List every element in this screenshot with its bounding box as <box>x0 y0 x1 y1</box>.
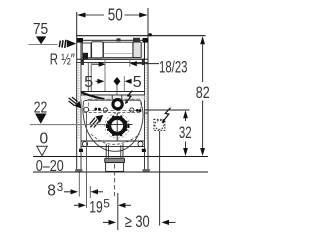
box top tick <box>117 38 121 41</box>
svg-text:5: 5 <box>84 74 93 91</box>
svg-text:82: 82 <box>196 83 210 102</box>
drain centreline dashed <box>114 164 116 196</box>
svg-text:19: 19 <box>89 199 103 217</box>
pan shelf dashed line <box>84 111 141 113</box>
electrical conduit line <box>159 131 161 226</box>
wire: finished floor line <box>33 156 208 158</box>
supply arrow icon <box>59 40 76 48</box>
WC pan outline <box>83 100 143 151</box>
extension line x131.7 <box>129 60 131 68</box>
drain coupling <box>105 158 125 162</box>
svg-text:75: 75 <box>33 21 48 38</box>
svg-text:5: 5 <box>133 74 142 91</box>
extension line x105 <box>104 60 106 93</box>
leg pin left <box>79 149 83 152</box>
flush pipe connection donut <box>111 98 123 110</box>
cistern bottom shelf lines <box>81 91 145 93</box>
service window <box>104 42 133 57</box>
bolt hole left <box>84 107 89 112</box>
svg-text:0: 0 <box>40 130 49 147</box>
fill valve box <box>92 42 103 58</box>
svg-text:0–20: 0–20 <box>36 158 64 175</box>
wire: top wall line <box>76 35 205 37</box>
dim 5 arrows and centre diamond <box>96 77 132 99</box>
flush pipe stubs <box>111 95 113 100</box>
electrical box dashed square <box>154 119 165 130</box>
foot right <box>143 169 150 172</box>
frame bottom rail <box>81 140 145 142</box>
rail hole left <box>82 141 87 146</box>
dot pair left <box>94 108 97 111</box>
svg-text:R ½″: R ½″ <box>50 52 75 69</box>
lightning bolt at electrical box <box>163 108 171 122</box>
arrow icon up-right (outlet direction) <box>90 115 103 128</box>
cistern box outline <box>81 40 145 59</box>
fill valve drop pipe <box>87 62 89 91</box>
supply hose wedge <box>81 91 104 100</box>
dim 22 marker <box>30 99 106 124</box>
dim 8/3 <box>47 182 103 200</box>
svg-text:18/23: 18/23 <box>159 58 188 77</box>
arrow icon down-right (supply entry) <box>69 97 82 108</box>
waste opening crosshair <box>106 124 133 126</box>
electrical box dashed circle <box>155 120 164 129</box>
frame left rail <box>76 12 78 172</box>
dim 32 <box>179 110 192 156</box>
pan inner bottom dashed curve <box>91 134 140 144</box>
svg-text:32: 32 <box>179 123 192 142</box>
dim 75 marker <box>29 21 58 44</box>
dark stub below box right <box>142 60 145 66</box>
dim 82 <box>196 36 210 156</box>
service opening rectangle <box>89 99 141 110</box>
ext line left leg <box>78 173 80 197</box>
dim 19/5 <box>74 197 131 217</box>
ext line x90 <box>89 186 91 198</box>
leg pin right <box>142 149 146 152</box>
svg-text:5: 5 <box>103 197 110 211</box>
lightning bolt at cistern outlet <box>126 91 132 103</box>
bracket blob lower-left <box>83 53 88 59</box>
foot left <box>75 169 82 172</box>
dim 0 marker <box>37 130 49 155</box>
flush valve box <box>133 42 141 58</box>
svg-text:3: 3 <box>57 182 63 194</box>
svg-text:8: 8 <box>47 183 56 200</box>
small circle right of flush pipe <box>130 108 134 112</box>
dim 50 line <box>77 5 148 25</box>
valve tab <box>133 38 140 42</box>
small circle left of flush pipe <box>103 108 107 112</box>
drain socket <box>105 144 107 158</box>
short mark on right rail <box>145 112 149 114</box>
bracket blob top-left <box>77 38 83 43</box>
ext line supply stub <box>86 112 88 208</box>
waste opening dashed circle <box>105 113 130 138</box>
window inner ledge <box>104 53 133 55</box>
wire: raw floor line <box>33 171 208 173</box>
dark stub below box left <box>81 60 84 66</box>
ext line waste centre <box>117 193 119 230</box>
svg-text:50: 50 <box>108 5 123 25</box>
waste opening flange ring <box>106 115 129 136</box>
left corner box <box>82 43 91 58</box>
dot pair right <box>136 109 139 112</box>
inner-width arrows row <box>92 61 159 67</box>
frame right rail <box>147 8 149 172</box>
dim >=30 <box>103 212 176 231</box>
wall anchor dot <box>149 33 152 36</box>
line to 32 dim <box>145 109 190 111</box>
cistern bottom band <box>77 58 148 60</box>
bracket blob top-right <box>143 38 149 43</box>
svg-text:≥ 30: ≥ 30 <box>125 212 150 231</box>
rail hole right <box>138 141 143 146</box>
